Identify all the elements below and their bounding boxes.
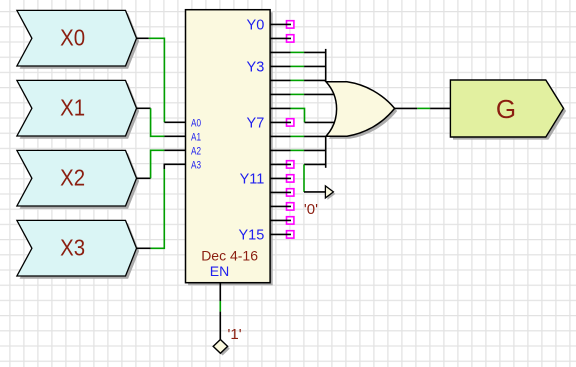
svg-text:Y0: Y0 bbox=[247, 18, 265, 34]
svg-text:'0': '0' bbox=[304, 201, 318, 218]
svg-text:X2: X2 bbox=[60, 164, 85, 190]
svg-text:'1': '1' bbox=[228, 326, 242, 343]
svg-text:X1: X1 bbox=[60, 94, 85, 120]
svg-text:Dec 4-16: Dec 4-16 bbox=[201, 247, 258, 263]
svg-text:EN: EN bbox=[210, 263, 229, 279]
svg-text:Y7: Y7 bbox=[247, 116, 265, 132]
svg-text:Y11: Y11 bbox=[240, 172, 265, 188]
svg-text:A3: A3 bbox=[191, 160, 201, 172]
svg-text:X3: X3 bbox=[60, 234, 85, 260]
svg-text:X0: X0 bbox=[60, 24, 85, 50]
svg-text:G: G bbox=[496, 94, 516, 124]
svg-text:Y15: Y15 bbox=[238, 228, 264, 244]
svg-text:Y3: Y3 bbox=[247, 60, 265, 76]
svg-text:A0: A0 bbox=[191, 118, 201, 130]
svg-text:A2: A2 bbox=[191, 146, 201, 158]
svg-text:A1: A1 bbox=[191, 132, 201, 144]
